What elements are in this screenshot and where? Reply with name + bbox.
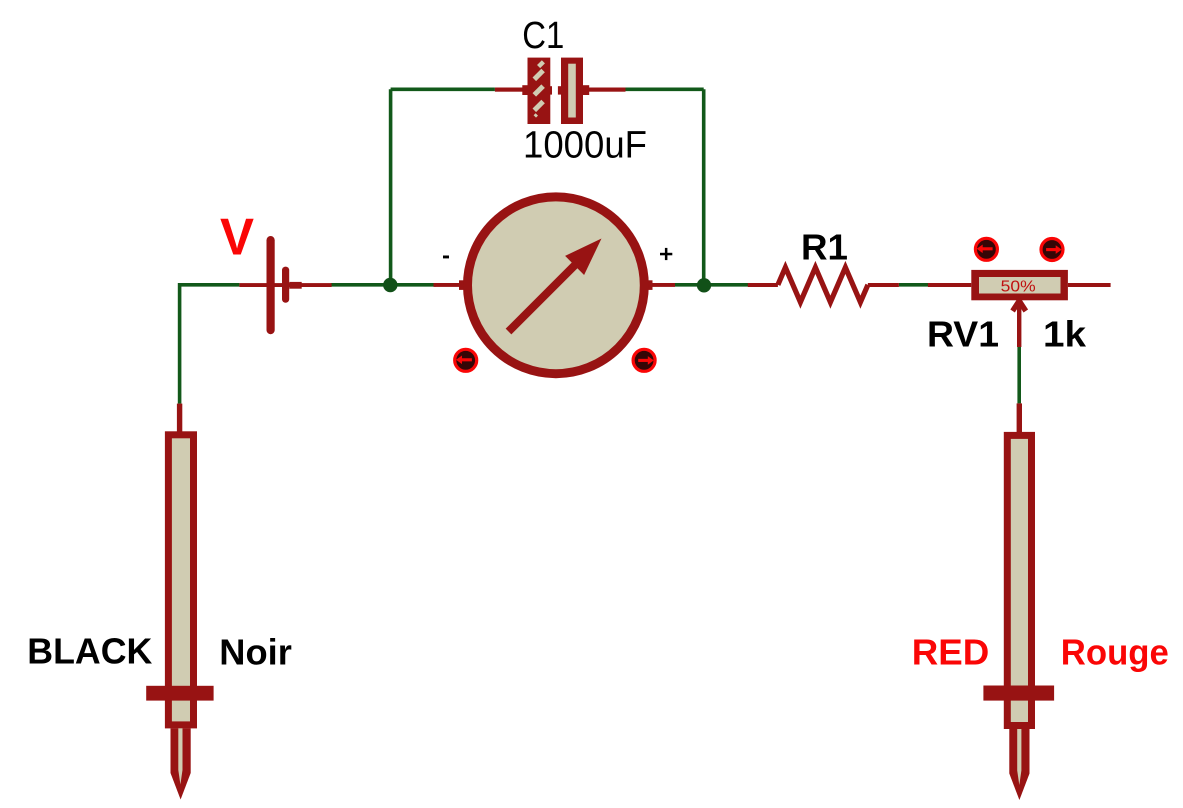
label RED xyxy=(912,632,990,673)
battery probe V long bar xyxy=(267,236,275,334)
capacitor C1 right lead stub xyxy=(558,85,626,95)
value label 1k xyxy=(1043,314,1087,355)
svg-text:50%: 50% xyxy=(1001,278,1036,295)
red probe body xyxy=(1007,435,1031,725)
junction: right node dot xyxy=(697,278,711,292)
wire: battery probe to left junction xyxy=(331,283,391,287)
wire: top horizontal net, right segment (cap right lead to right riser) xyxy=(626,88,704,92)
label Noir xyxy=(219,632,291,673)
wire: right vertical riser from top net down to main net junction xyxy=(702,89,706,284)
wire: RV1 wiper down to red probe xyxy=(1017,347,1021,403)
black probe body xyxy=(168,435,193,725)
svg-text:1000uF: 1000uF xyxy=(523,125,647,167)
svg-text:BLACK: BLACK xyxy=(27,631,152,672)
label RV1 xyxy=(927,314,999,355)
meter plus sign xyxy=(660,248,672,260)
wire: top horizontal net, left segment (cap left lead to left riser) xyxy=(391,88,495,92)
label C1 xyxy=(522,15,564,57)
wire: left vertical riser from top net down to main net junction xyxy=(389,89,393,284)
red probe crossbar xyxy=(983,686,1054,701)
potentiometer RV1 left lead stub xyxy=(928,283,971,287)
value label 1000uF xyxy=(523,125,647,167)
capacitor C1 left lead stub xyxy=(495,85,552,95)
meter M1 needle xyxy=(509,239,602,332)
battery probe V lead stub xyxy=(239,282,331,289)
svg-text:RV1: RV1 xyxy=(927,314,999,355)
label R1 xyxy=(801,227,848,268)
black probe lead stub xyxy=(177,404,182,433)
potentiometer RV1 wiper arrow xyxy=(1013,300,1026,347)
svg-text:Rouge: Rouge xyxy=(1061,632,1169,673)
svg-text:RED: RED xyxy=(912,632,990,673)
wire: right junction to R1 left lead xyxy=(704,283,749,287)
red probe lead stub xyxy=(1017,403,1022,432)
red probe tip xyxy=(1009,729,1029,800)
wire: R1 right lead to RV1 left lead xyxy=(899,283,928,287)
marker icon: meter right (arrow right) xyxy=(633,349,655,371)
meter M1 left pin stub xyxy=(434,280,465,290)
wire: left junction to meter minus pin xyxy=(391,283,436,287)
marker icon: meter left (arrow left) xyxy=(455,349,477,371)
label Rouge xyxy=(1061,632,1169,673)
label BLACK xyxy=(27,631,152,672)
wire: main net left corner segment to battery probe xyxy=(180,285,240,404)
meter M1 body circle xyxy=(468,197,645,374)
marker icon: RV1 left (arrow left) xyxy=(975,238,997,260)
junction: left node dot xyxy=(383,278,397,292)
value label 50% xyxy=(1001,278,1036,295)
svg-text:C1: C1 xyxy=(522,15,564,57)
label V (red) xyxy=(220,209,254,267)
svg-text:1k: 1k xyxy=(1043,314,1087,355)
black probe tip xyxy=(171,728,191,799)
black probe crossbar xyxy=(146,686,213,701)
meter M1 right pin stub xyxy=(644,280,675,290)
potentiometer RV1 right lead stub (open) xyxy=(1068,283,1111,287)
resistor R1 left lead stub xyxy=(748,283,778,287)
capacitor C1 positive plate xyxy=(561,58,583,124)
resistor R1 right lead stub xyxy=(868,283,899,287)
wire: meter plus pin to right junction xyxy=(675,283,704,287)
resistor R1 zigzag body xyxy=(778,267,868,302)
battery probe V short bar xyxy=(282,267,289,303)
svg-text:Noir: Noir xyxy=(219,632,291,673)
capacitor C1 negative plate (hatched) xyxy=(528,58,551,124)
svg-text:V: V xyxy=(220,209,254,267)
potentiometer RV1 body xyxy=(971,270,1068,300)
meter minus sign xyxy=(443,256,449,259)
svg-text:R1: R1 xyxy=(801,227,848,268)
marker icon: RV1 right (arrow right) xyxy=(1041,239,1063,261)
